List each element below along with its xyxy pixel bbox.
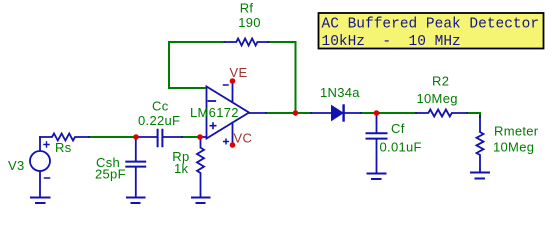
svg-text:R2: R2 [432,74,449,89]
junction node (Cf tap) [374,110,380,116]
svg-text:VC: VC [234,131,253,146]
wire Cc to Rp node [182,136,200,138]
junction node (output/feedback) [293,110,299,116]
wire inverting input [169,87,207,89]
junction node (Rp input) [197,134,203,140]
wire feedback top rail [169,41,296,43]
svg-text:LM6172: LM6172 [190,105,239,120]
svg-text:Rmeter: Rmeter [494,124,539,139]
resistor Rmeter [477,116,484,173]
ground (Rp) [192,198,210,204]
title box [319,13,544,49]
svg-text:0.01uF: 0.01uF [380,140,422,155]
wire output lead [249,112,266,114]
ground (Cf) [368,174,386,180]
resistor Rp [197,139,204,197]
wire noninverting stub [200,136,207,138]
svg-text:Rf: Rf [240,1,254,16]
svg-text:AC Buffered Peak Detector: AC Buffered Peak Detector [322,17,540,33]
wire R2 to Rmeter corner [467,113,480,117]
svg-text:10Meg: 10Meg [493,140,534,155]
resistor Rf [225,39,269,46]
capacitor Cc [138,130,182,147]
wire feedback right vertical [295,42,297,113]
resistor Rs [40,134,89,141]
ground (V3) [31,198,50,204]
node dot VE [230,78,236,84]
diode D1 1N34a [311,106,361,121]
svg-text:1k: 1k [174,161,189,176]
wire output to diode [266,112,311,114]
svg-text:0.22uF: 0.22uF [138,113,180,128]
svg-text:Cc: Cc [152,99,169,114]
ground (Csh) [127,198,145,204]
svg-text:VE: VE [230,65,248,80]
wire Rs to Csh node [89,136,136,138]
svg-text:10kHz - 10 MHz: 10kHz - 10 MHz [322,34,461,50]
svg-text:10Meg: 10Meg [417,91,458,106]
ground (Rmeter) [471,173,489,179]
wire diode to R2 [361,112,416,114]
resistor R2 [416,110,467,117]
svg-text:1N34a: 1N34a [320,85,360,100]
svg-text:Rs: Rs [55,140,72,155]
capacitor Cf [367,115,387,173]
svg-text:25pF: 25pF [95,167,126,182]
wire feedback left vertical [168,42,170,88]
svg-text:190: 190 [238,15,261,30]
svg-text:Cf: Cf [391,121,405,136]
capacitor Csh [126,139,145,197]
node dot VC [230,142,236,148]
junction node (input/Csh) [133,134,139,140]
op-amp U1 LM6172 [207,81,250,145]
source V3 [30,137,50,197]
svg-text:V3: V3 [8,158,25,173]
